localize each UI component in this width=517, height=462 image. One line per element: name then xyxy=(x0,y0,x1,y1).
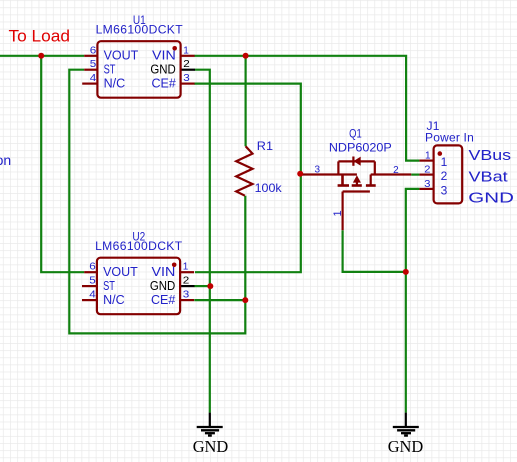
U2 pin 2 stub (GND, black) xyxy=(180,285,194,287)
wire R1 bottom to junction xyxy=(244,196,246,300)
svg-text:6: 6 xyxy=(90,45,97,56)
svg-text:1: 1 xyxy=(183,45,189,56)
U1 pin1 indicator dot xyxy=(172,46,177,51)
Q1 right contact xyxy=(370,175,372,186)
U2 pin 4 stub xyxy=(82,299,97,301)
svg-text:GND: GND xyxy=(193,437,229,456)
Q1 body diode cathode bar xyxy=(352,157,354,166)
U1 pin 1 stub xyxy=(181,55,195,57)
ground symbol right xyxy=(393,413,419,436)
junction dot E (U2 pin3) xyxy=(242,297,248,303)
wire U1 pin5 to U2 pin3 net xyxy=(69,70,245,334)
U1 pin 4 stub xyxy=(82,82,97,84)
svg-text:4: 4 xyxy=(90,73,97,84)
svg-text:2: 2 xyxy=(183,59,190,70)
transistor Q1 NDP6020P xyxy=(302,157,411,231)
svg-text:ST: ST xyxy=(104,63,116,77)
junction dot C (gate tap) xyxy=(297,171,303,177)
Q1 channel dash 1 xyxy=(338,184,349,187)
U1 pin names xyxy=(104,49,176,91)
J1 pin 2 stub xyxy=(419,174,433,176)
svg-text:1: 1 xyxy=(441,155,448,169)
svg-text:1: 1 xyxy=(332,210,344,216)
junction dot B xyxy=(243,53,249,59)
wire vertical x=41 to U2 pin6 xyxy=(41,56,84,272)
IC U2 body xyxy=(97,258,180,315)
svg-text:VOUT: VOUT xyxy=(104,49,139,63)
wire U1 pin2 GND net down xyxy=(195,70,210,413)
svg-text:N/C: N/C xyxy=(103,293,125,307)
wire VOUT net top xyxy=(0,56,419,413)
U2 pin 3 stub xyxy=(180,299,194,301)
svg-text:VOUT: VOUT xyxy=(103,265,138,279)
U2 pin 6 stub xyxy=(84,271,97,273)
svg-text:3: 3 xyxy=(441,183,448,197)
Q1 gate bar xyxy=(341,175,344,186)
U1 pin 6 stub xyxy=(84,55,97,57)
Q1 source bottom line xyxy=(343,190,370,192)
svg-text:R1: R1 xyxy=(257,139,274,153)
U1 pin numbers xyxy=(90,45,191,84)
U2 pin names xyxy=(103,265,175,307)
J1 inside pin names xyxy=(441,155,448,197)
svg-text:2: 2 xyxy=(393,165,399,176)
svg-text:VIN: VIN xyxy=(152,49,176,63)
Q1 body diode triangle xyxy=(354,157,361,166)
svg-text:2: 2 xyxy=(424,165,431,176)
Q1 top rail xyxy=(338,160,374,162)
IC U1 pins xyxy=(82,56,194,84)
wire R1 top xyxy=(245,56,247,146)
svg-text:GND: GND xyxy=(468,190,514,206)
J1 outside pin numbers xyxy=(424,151,431,190)
svg-text:3: 3 xyxy=(183,290,190,301)
svg-text:3: 3 xyxy=(315,165,321,176)
svg-text:2: 2 xyxy=(441,169,448,183)
svg-text:GND: GND xyxy=(150,63,175,77)
U1 pin 5 stub xyxy=(84,69,97,71)
svg-text:CE#: CE# xyxy=(151,293,175,307)
svg-text:5: 5 xyxy=(90,59,97,70)
ground symbol left xyxy=(197,413,223,436)
U2 pin numbers xyxy=(89,262,190,301)
U1 pin 2 stub (GND, black) xyxy=(181,69,195,71)
svg-text:ST: ST xyxy=(103,279,115,293)
Q1 gate lead and bulk line xyxy=(302,173,357,175)
Q1 arrow stem xyxy=(356,182,358,186)
wire U1 pin1 to J1 pin1 xyxy=(194,56,419,161)
wire U1 pin3 CE to U2 pin1 xyxy=(194,84,301,273)
IC U1 body xyxy=(97,41,180,97)
J1 pin1 indicator dot xyxy=(438,151,443,156)
U1 pin 3 stub xyxy=(181,82,195,84)
svg-text:LM66100DCKT: LM66100DCKT xyxy=(95,239,183,253)
Q1 bulk arrow xyxy=(353,175,361,182)
svg-text:GND: GND xyxy=(150,279,175,293)
connector J1 body xyxy=(434,145,463,203)
svg-text:N/C: N/C xyxy=(104,76,126,90)
svg-text:VIN: VIN xyxy=(152,265,176,279)
svg-text:GND: GND xyxy=(388,437,424,456)
svg-text:3: 3 xyxy=(424,179,431,190)
svg-text:on: on xyxy=(0,152,11,168)
junction dot F (source/GND) xyxy=(403,269,409,275)
Q1 left contact up xyxy=(337,161,339,174)
wire J1 pin3 to GND symbol xyxy=(406,189,420,413)
IC U2 pins xyxy=(82,272,194,300)
svg-text:1: 1 xyxy=(425,151,431,162)
junction dot D (U2 pin2) xyxy=(207,283,213,289)
U2 pin1 indicator dot xyxy=(172,263,177,268)
svg-text:1: 1 xyxy=(183,262,189,273)
Q1 channel dash 3 xyxy=(366,184,376,187)
connector J1 pins xyxy=(419,161,433,189)
wire U2 pin3 to junction xyxy=(194,299,245,301)
wire U2 pin2 to GND vertical xyxy=(194,285,210,287)
svg-text:Q1: Q1 xyxy=(349,127,362,141)
svg-text:Power In: Power In xyxy=(425,130,474,144)
svg-text:To Load: To Load xyxy=(9,27,71,45)
svg-text:LM66100DCKT: LM66100DCKT xyxy=(96,23,184,37)
J1 pin 3 stub xyxy=(419,188,433,190)
svg-text:NDP6020P: NDP6020P xyxy=(329,141,392,155)
junction dot A xyxy=(38,53,44,59)
svg-text:4: 4 xyxy=(89,290,96,301)
Q1 drain lead xyxy=(371,173,412,175)
svg-text:5: 5 xyxy=(89,276,96,287)
wire Q1 drain to J1 pin2 xyxy=(411,174,419,176)
wire top-left to U1 pin6 xyxy=(0,55,84,57)
svg-text:3: 3 xyxy=(183,73,190,84)
svg-text:6: 6 xyxy=(89,262,96,273)
U2 pin 1 stub xyxy=(180,271,194,273)
Q1 channel dash 2 xyxy=(352,184,362,187)
svg-text:100k: 100k xyxy=(255,181,283,195)
Q1 source lead down xyxy=(342,192,344,231)
svg-text:VBat: VBat xyxy=(469,169,508,185)
Q1 top rail right leg xyxy=(374,161,376,174)
U2 pin 5 stub xyxy=(82,285,97,287)
svg-text:CE#: CE# xyxy=(151,76,175,90)
svg-text:VBus: VBus xyxy=(469,148,512,164)
svg-text:2: 2 xyxy=(183,276,190,287)
J1 pin 1 stub xyxy=(419,160,433,162)
resistor R1 xyxy=(236,146,252,196)
wire Q1 source to GND net xyxy=(343,230,406,272)
